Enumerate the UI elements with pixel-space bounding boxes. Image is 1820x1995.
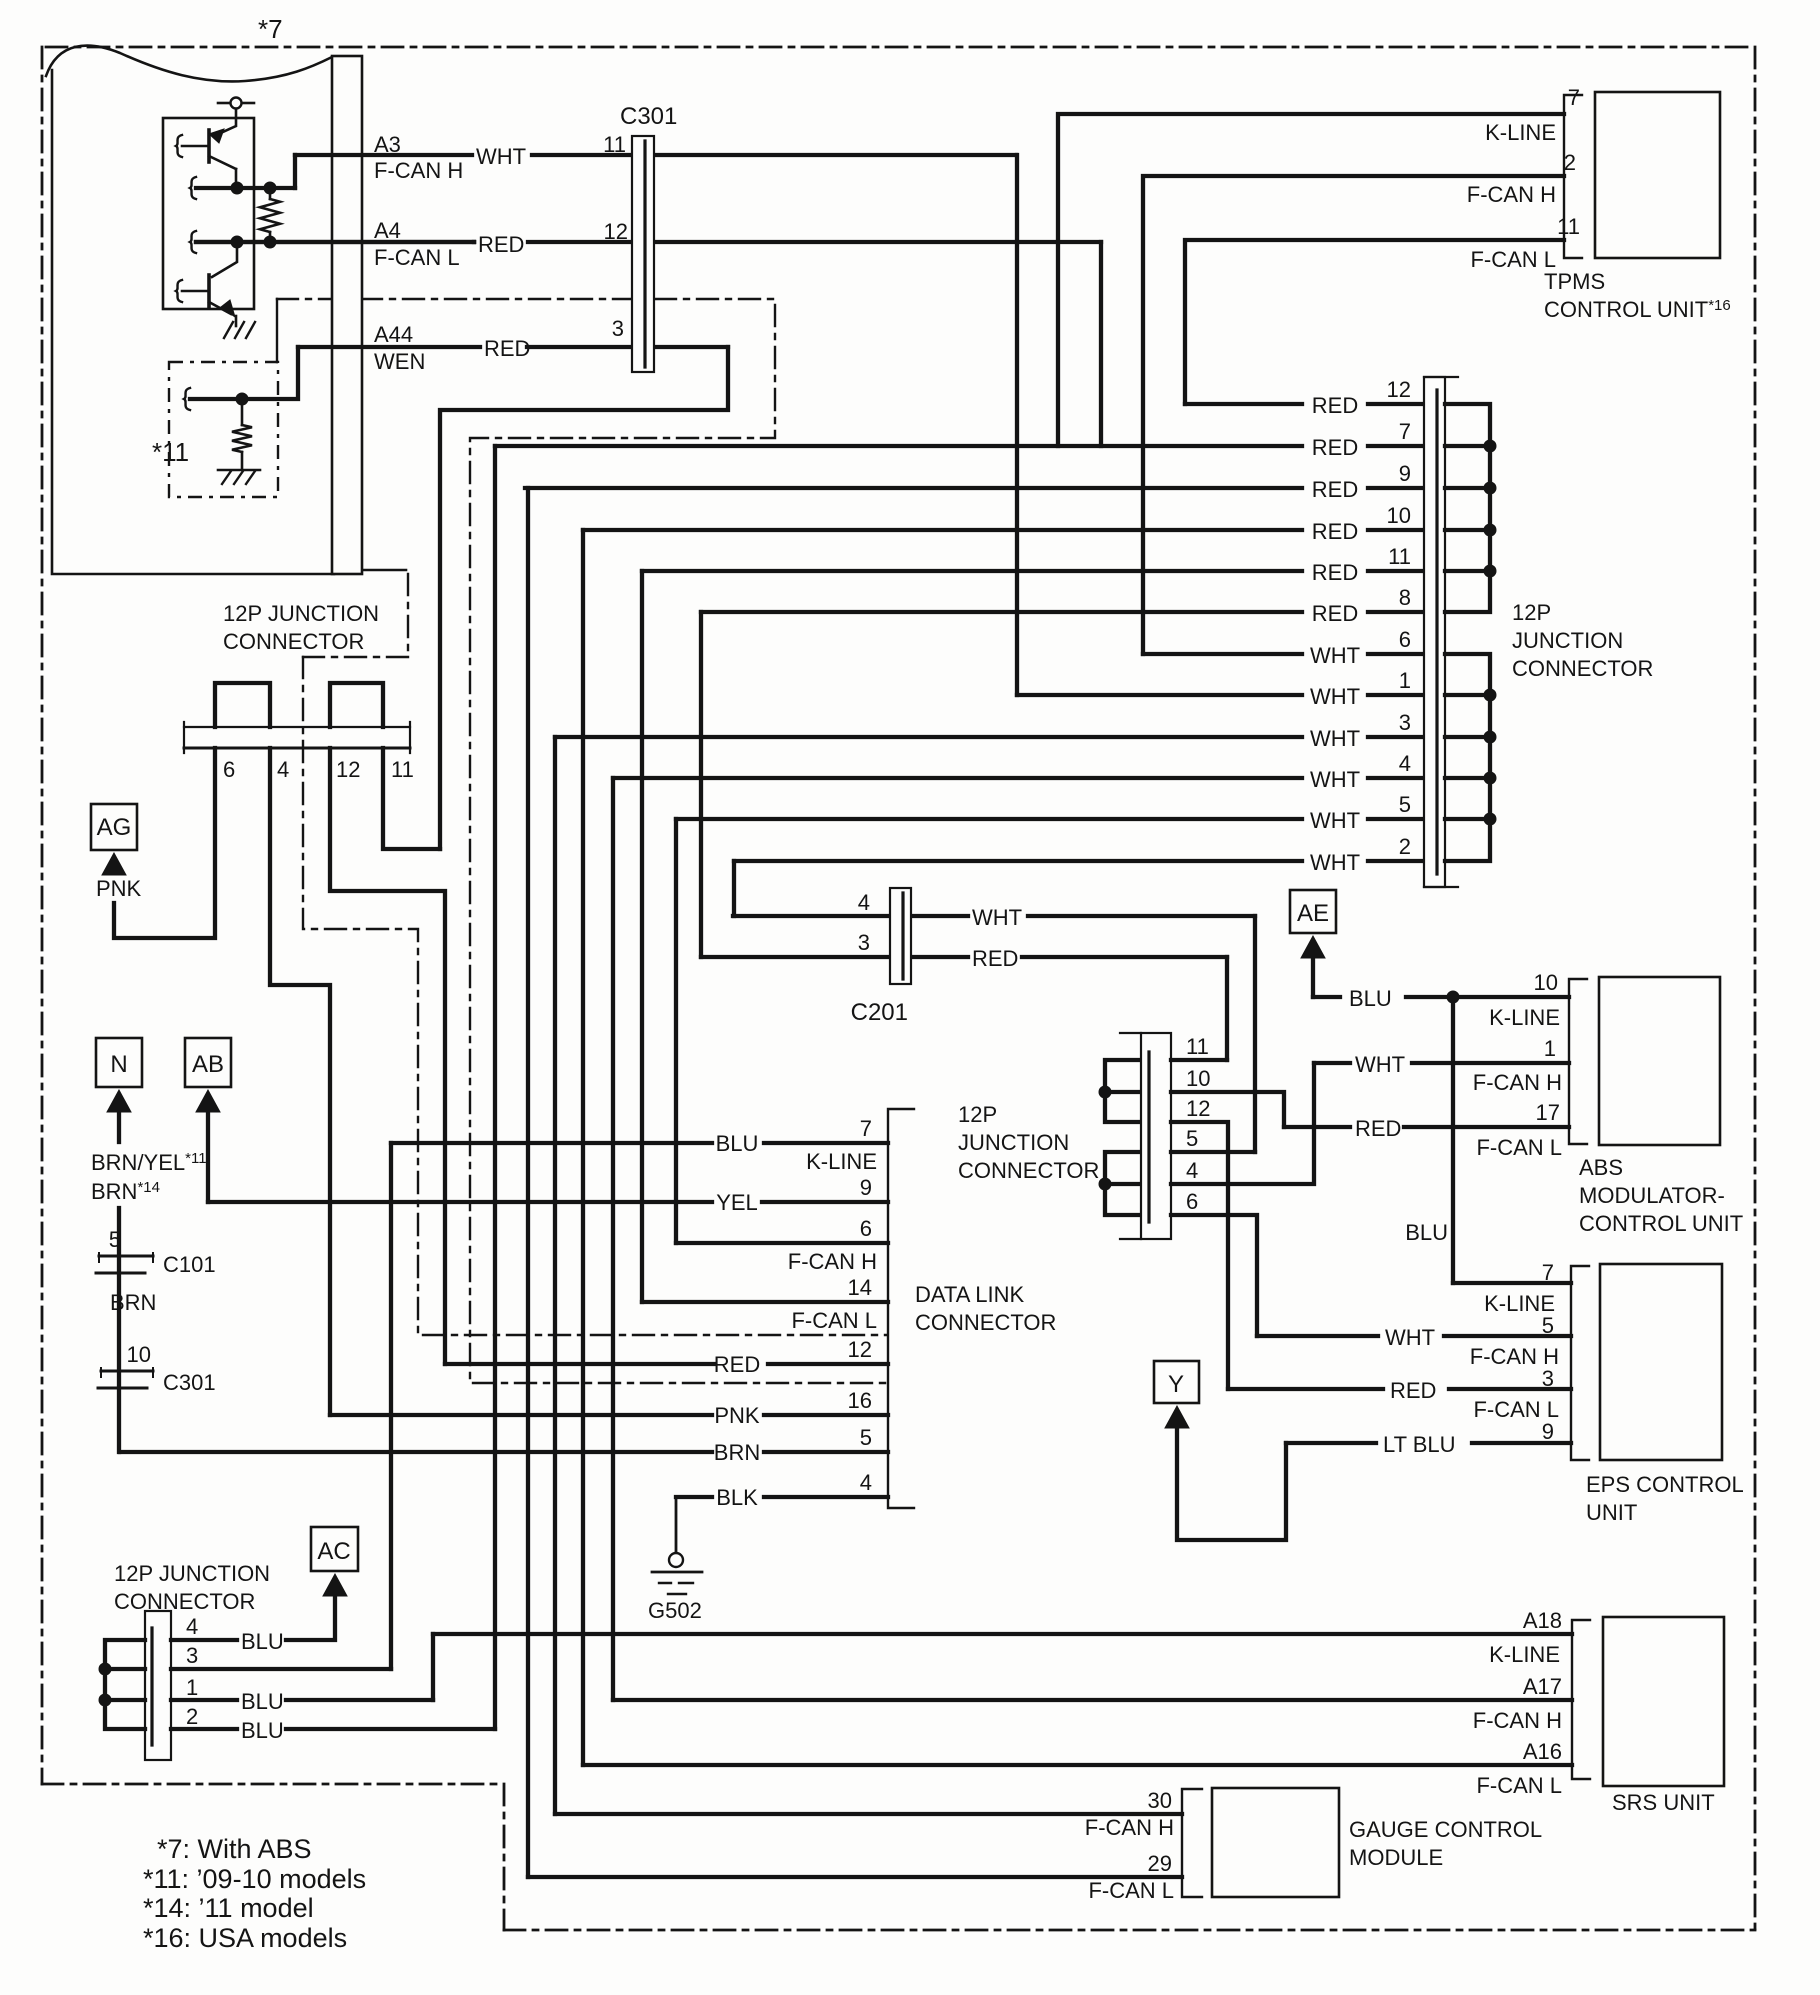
svg-text:5: 5 <box>1399 792 1411 817</box>
svg-text:SRS UNIT: SRS UNIT <box>1612 1790 1715 1815</box>
svg-text:1: 1 <box>1399 668 1411 693</box>
svg-text:UNIT: UNIT <box>1586 1500 1637 1525</box>
dash-dot box *11 <box>169 362 278 497</box>
svg-text:12P: 12P <box>1512 600 1551 625</box>
svg-text:AB: AB <box>192 1051 224 1078</box>
svg-text:RED: RED <box>1312 519 1358 544</box>
svg-text:7: 7 <box>1542 1260 1554 1285</box>
node dots on F-CAN L row <box>231 236 243 248</box>
wire WHT to right 12P junction pin 5 <box>676 817 1302 821</box>
svg-text:7: 7 <box>1568 85 1580 110</box>
svg-text:N: N <box>110 1051 127 1078</box>
jumper loop pins 12-11 <box>330 683 383 727</box>
transistor network box <box>163 118 254 309</box>
svg-text:CONTROL UNIT: CONTROL UNIT <box>1579 1211 1743 1236</box>
svg-text:11: 11 <box>1388 544 1411 569</box>
wire F-CAN L row of DLC <box>642 1300 888 1304</box>
wire A3 riser to WHT row1 <box>1015 155 1019 695</box>
wire WHT to right 12P junction pin 6 <box>1143 652 1302 656</box>
svg-text:5: 5 <box>1542 1313 1554 1338</box>
wire PNK row of DLC from upper junction pin 4 <box>330 1413 712 1417</box>
svg-text:WHT: WHT <box>1310 767 1360 792</box>
svg-text:F-CAN H: F-CAN H <box>788 1249 877 1274</box>
svg-text:BLU: BLU <box>241 1689 284 1714</box>
curl Q1 base stub <box>176 135 182 157</box>
svg-text:CONNECTOR: CONNECTOR <box>1512 656 1653 681</box>
arrow into AC box <box>323 1574 347 1596</box>
svg-text:7: 7 <box>1399 419 1411 444</box>
ECM torn-edge wavy top <box>46 46 332 82</box>
staircase wire riser RED row8 to C201 RED <box>699 612 703 957</box>
outer dash-dot border right <box>1754 47 1757 1930</box>
svg-text:WHT: WHT <box>1310 808 1360 833</box>
svg-text:K-LINE: K-LINE <box>806 1149 877 1174</box>
wire Q2 emitter to ground <box>235 316 238 326</box>
svg-text:2: 2 <box>1564 150 1576 175</box>
svg-text:4: 4 <box>1399 751 1411 776</box>
wire F-CAN L row to gauge pin 29 <box>528 1875 1182 1879</box>
AE reference box <box>1290 890 1336 933</box>
svg-text:7: 7 <box>860 1116 872 1141</box>
staircase wire riser WHT row3 to gauge F-CAN H <box>553 737 557 1814</box>
svg-text:YEL: YEL <box>716 1190 758 1215</box>
supply terminal circle <box>218 102 230 105</box>
wire Q1 emitter to F-CAN H node <box>235 169 238 188</box>
ground under transistor box <box>224 322 255 338</box>
wire RED to right 12P junction pin 7 <box>495 444 1302 448</box>
svg-text:3: 3 <box>1542 1366 1554 1391</box>
wire center row 6 to EPS F-CAN H <box>1171 1215 1257 1336</box>
svg-text:F-CAN H: F-CAN H <box>1473 1070 1562 1095</box>
lower-left junction bus <box>105 1640 145 1729</box>
wire N to C101 to C301 to BRN row <box>117 1208 121 1452</box>
arrow into Y box <box>1165 1406 1189 1428</box>
junction dot BLU K-LINE <box>1447 991 1459 1003</box>
svg-text:K-LINE: K-LINE <box>1489 1005 1560 1030</box>
svg-text:BLU: BLU <box>716 1131 759 1156</box>
svg-text:3: 3 <box>612 316 624 341</box>
connector C301 (lower) <box>101 1370 153 1373</box>
wire A4 F-CAN L RED row <box>472 240 476 244</box>
svg-text:CONNECTOR: CONNECTOR <box>114 1589 255 1614</box>
wire F-CAN L row to SRS A16 <box>583 1763 1572 1767</box>
svg-text:6: 6 <box>223 757 235 782</box>
svg-text:5: 5 <box>109 1227 121 1252</box>
svg-text:1: 1 <box>186 1675 198 1700</box>
svg-text:12P JUNCTION: 12P JUNCTION <box>223 601 379 626</box>
svg-text:14: 14 <box>848 1275 872 1300</box>
staircase wire riser RED row7 to lower-left pin2 <box>493 446 497 1729</box>
staircase wire riser RED row9 to gauge F-CAN L <box>526 488 530 1877</box>
svg-text:11: 11 <box>1557 214 1580 239</box>
svg-text:17: 17 <box>1536 1100 1560 1125</box>
svg-text:WHT: WHT <box>1310 726 1360 751</box>
svg-text:LT BLU: LT BLU <box>1383 1432 1456 1457</box>
svg-text:9: 9 <box>860 1175 872 1200</box>
wire TPMS K-LINE pin 7 <box>1058 114 1564 446</box>
ECM step at bottom right <box>364 569 406 572</box>
staircase wire riser WHT row5 to DLC F-CAN H <box>674 819 678 1243</box>
SRS unit box <box>1603 1617 1724 1786</box>
wire pin 2 BLU to row7 riser <box>171 1727 237 1731</box>
svg-text:Y: Y <box>1168 1371 1184 1398</box>
connector C201 <box>890 888 911 984</box>
EPS control unit box <box>1600 1264 1722 1460</box>
dash-dot stub from ECM step <box>407 574 409 657</box>
svg-text:2: 2 <box>1399 834 1411 859</box>
svg-text:CONNECTOR: CONNECTOR <box>915 1310 1056 1335</box>
wire pin 12 to DLC RED row <box>330 748 445 1364</box>
svg-text:PNK: PNK <box>714 1403 760 1428</box>
wire RED to ABS pin 17 F-CAN L <box>1284 1125 1350 1129</box>
svg-text:RED: RED <box>1312 393 1358 418</box>
staircase wire riser WHT row2 to C201 WHT <box>732 861 736 916</box>
staircase wire riser WHT row4 to SRS F-CAN H <box>611 778 615 1700</box>
curl F-CAN H stub <box>190 177 196 199</box>
connector bar upper-left 12P junction <box>184 722 410 753</box>
svg-text:CONNECTOR: CONNECTOR <box>958 1158 1099 1183</box>
wire RED row of DLC from upper junction pin 12 <box>445 1362 714 1366</box>
wire internal F-CAN L row <box>196 240 474 244</box>
svg-text:8: 8 <box>1399 585 1411 610</box>
connector bracket gauge <box>1182 1789 1202 1897</box>
svg-text:RED: RED <box>1390 1378 1436 1403</box>
staircase wire riser RED row11 to DLC F-CAN L <box>640 571 644 1302</box>
wire *11 internal row <box>190 347 298 399</box>
ECM connector strip bar <box>332 56 362 574</box>
connector bracket TPMS <box>1564 95 1582 258</box>
svg-text:PNK: PNK <box>96 876 142 901</box>
svg-text:11: 11 <box>391 757 414 782</box>
transistor Q1 <box>207 130 211 162</box>
svg-text:A16: A16 <box>1523 1739 1562 1764</box>
svg-text:C101: C101 <box>163 1252 216 1277</box>
arrow into AB box <box>196 1090 220 1112</box>
outer dash-dot border bottom-left step <box>42 1784 504 1930</box>
svg-text:*11: ’09-10 models: *11: ’09-10 models <box>143 1864 366 1894</box>
svg-text:RED: RED <box>478 232 524 257</box>
wire A44 WEN RED row <box>298 345 480 349</box>
wire BLU K-LINE row of DLC from lower junction pin 3 <box>391 1141 712 1145</box>
svg-text:WHT: WHT <box>476 144 526 169</box>
connector bracket EPS <box>1571 1266 1589 1460</box>
svg-text:12: 12 <box>848 1337 872 1362</box>
AG reference box <box>91 804 137 850</box>
svg-text:F-CAN H: F-CAN H <box>1473 1708 1562 1733</box>
svg-text:12P JUNCTION: 12P JUNCTION <box>114 1561 270 1586</box>
wire WHT to right 12P junction pin 3 <box>555 735 1302 739</box>
svg-text:WHT: WHT <box>1355 1052 1405 1077</box>
wire internal F-CAN H row <box>196 186 295 190</box>
svg-text:3: 3 <box>858 930 870 955</box>
svg-text:5: 5 <box>1186 1126 1198 1151</box>
wire YEL row of DLC from AB box <box>208 1200 712 1204</box>
arrow into N box <box>107 1090 131 1112</box>
wire RED to right 12P junction pin 11 <box>642 569 1302 573</box>
wire RED to right 12P junction pin 10 <box>583 528 1302 532</box>
svg-text:F-CAN L: F-CAN L <box>1476 1135 1562 1160</box>
svg-text:BLK: BLK <box>716 1485 758 1510</box>
svg-text:F-CAN L: F-CAN L <box>374 245 460 270</box>
wire from terminal to transistor Q1 <box>214 109 236 136</box>
svg-text:BRN: BRN <box>110 1290 156 1315</box>
wire F-CAN H row of DLC <box>676 1241 888 1245</box>
wire RED to right 12P junction pin 9 <box>525 486 1302 490</box>
svg-text:4: 4 <box>860 1470 872 1495</box>
wire K-LINE row to SRS A18 <box>433 1632 1572 1636</box>
AC reference box <box>311 1527 358 1571</box>
svg-text:RED: RED <box>972 946 1018 971</box>
svg-text:10: 10 <box>1186 1066 1210 1091</box>
svg-text:11: 11 <box>1186 1034 1209 1059</box>
svg-text:*7: *7 <box>258 14 283 44</box>
wire C201 WHT row <box>733 914 890 918</box>
wire A3 F-CAN H WHT row <box>295 153 472 157</box>
jumper loop pins 6-4 <box>215 683 270 727</box>
svg-text:AE: AE <box>1297 900 1329 927</box>
svg-text:F-CAN H: F-CAN H <box>1467 182 1556 207</box>
svg-text:RED: RED <box>714 1352 760 1377</box>
svg-text:16: 16 <box>848 1388 872 1413</box>
svg-text:F-CAN L: F-CAN L <box>791 1308 877 1333</box>
ground under *11 resistor <box>218 469 260 472</box>
wire WHT to right 12P junction pin 4 <box>613 776 1302 780</box>
svg-text:2: 2 <box>186 1704 198 1729</box>
svg-text:JUNCTION: JUNCTION <box>1512 628 1623 653</box>
svg-text:WHT: WHT <box>1310 643 1360 668</box>
svg-text:RED: RED <box>1355 1116 1401 1141</box>
wire TPMS F-CAN H pin 2 <box>1143 176 1564 654</box>
svg-text:6: 6 <box>860 1216 872 1241</box>
svg-text:AG: AG <box>97 814 132 841</box>
svg-text:30: 30 <box>1148 1788 1172 1813</box>
svg-text:4: 4 <box>277 757 289 782</box>
svg-text:C301: C301 <box>620 103 677 130</box>
wire LT BLU to EPS pin 9 <box>1286 1441 1376 1445</box>
Y reference box <box>1154 1361 1199 1403</box>
svg-text:WHT: WHT <box>1310 850 1360 875</box>
wire riser to A3 row <box>293 155 297 188</box>
svg-text:12: 12 <box>604 219 628 244</box>
wire C201 RED row <box>701 955 890 959</box>
wire C201 WHT drop to center junction row 5 <box>1253 916 1257 1152</box>
svg-text:A44: A44 <box>374 322 413 347</box>
wire WHT to right 12P junction pin 2 <box>734 859 1302 863</box>
svg-text:12: 12 <box>336 757 360 782</box>
svg-text:CONTROL UNIT*16: CONTROL UNIT*16 <box>1544 297 1731 322</box>
transistor Q2 <box>212 247 237 277</box>
svg-text:F-CAN L: F-CAN L <box>1476 1773 1562 1798</box>
svg-text:F-CAN H: F-CAN H <box>1085 1815 1174 1840</box>
connector bracket ABS <box>1569 979 1587 1144</box>
svg-text:A18: A18 <box>1523 1608 1562 1633</box>
center 12P junction bus left lower (5,4,6) <box>1105 1152 1141 1215</box>
wire RED to EPS pin 3 F-CAN L <box>1228 1387 1383 1391</box>
svg-text:K-LINE: K-LINE <box>1485 120 1556 145</box>
wire WHT to ABS pin 1 F-CAN H <box>1314 1061 1350 1065</box>
wire center row 5 to C201 WHT drop <box>1171 1150 1255 1154</box>
staircase wire riser RED row10 to SRS F-CAN L <box>581 530 585 1765</box>
right 12P junction bus lower (rows 6-2) <box>1445 654 1490 861</box>
svg-text:12P: 12P <box>958 1102 997 1127</box>
svg-text:MODULATOR-: MODULATOR- <box>1579 1183 1725 1208</box>
svg-text:MODULE: MODULE <box>1349 1845 1443 1870</box>
svg-text:RED: RED <box>484 336 530 361</box>
svg-text:TPMS: TPMS <box>1544 269 1605 294</box>
svg-text:*7: With ABS: *7: With ABS <box>157 1834 312 1864</box>
wire BLU drop to EPS K-LINE <box>1451 997 1455 1283</box>
wire WHT to EPS pin 5 F-CAN H <box>1257 1334 1378 1338</box>
svg-text:10: 10 <box>127 1342 151 1367</box>
svg-text:GAUGE CONTROL: GAUGE CONTROL <box>1349 1817 1542 1842</box>
wire pin 11 to A44 route <box>383 748 440 849</box>
arrow into AE box <box>1301 936 1325 958</box>
center 12P junction bus left upper (11,10,12) <box>1105 1060 1141 1122</box>
svg-text:9: 9 <box>1399 461 1411 486</box>
AB reference box <box>185 1038 231 1087</box>
svg-text:WHT: WHT <box>1310 684 1360 709</box>
curl Q2 base stub <box>176 280 182 302</box>
svg-text:4: 4 <box>1186 1158 1198 1183</box>
svg-text:BLU: BLU <box>1405 1220 1448 1245</box>
svg-text:RED: RED <box>1312 435 1358 460</box>
svg-text:G502: G502 <box>648 1598 702 1623</box>
svg-text:6: 6 <box>1186 1189 1198 1214</box>
svg-text:WHT: WHT <box>1385 1325 1435 1350</box>
curl F-CAN L stub <box>190 231 196 253</box>
wire RED to right 12P junction pin 8 <box>701 610 1302 614</box>
svg-text:4: 4 <box>186 1614 198 1639</box>
svg-text:9: 9 <box>1542 1419 1554 1444</box>
outer dash-dot border left <box>41 47 44 1784</box>
svg-text:BLU: BLU <box>241 1718 284 1743</box>
svg-text:RED: RED <box>1312 477 1358 502</box>
ABS modulator-control unit box <box>1599 977 1720 1145</box>
wire C201 RED drop to center junction row 11 <box>1225 957 1229 1060</box>
svg-text:3: 3 <box>1399 710 1411 735</box>
svg-text:*16: USA models: *16: USA models <box>143 1923 347 1953</box>
svg-text:A4: A4 <box>374 218 401 243</box>
wire pin 4 to DLC PNK row <box>270 748 330 1415</box>
wire center row 10 to ABS F-CAN L <box>1171 1092 1284 1127</box>
wire from Y to LT BLU <box>1177 1428 1286 1540</box>
right 12P junction bus upper (rows 12-8) <box>1445 404 1490 612</box>
connector bar right 12P junction <box>1424 377 1445 887</box>
svg-text:BLU: BLU <box>241 1629 284 1654</box>
wire BLK row of DLC to G502 <box>676 1495 712 1499</box>
svg-text:C201: C201 <box>851 999 908 1026</box>
svg-text:ABS: ABS <box>1579 1155 1623 1180</box>
wire BRN row of DLC from C301 <box>120 1450 712 1454</box>
svg-text:*11: *11 <box>152 437 189 467</box>
connector bar center 12P junction <box>1141 1033 1171 1239</box>
ground G502 <box>675 1497 678 1553</box>
svg-text:C301: C301 <box>163 1370 216 1395</box>
svg-text:K-LINE: K-LINE <box>1489 1642 1560 1667</box>
connector bar lower-left 12P junction <box>145 1611 171 1760</box>
N reference box <box>96 1038 142 1087</box>
svg-text:BLU: BLU <box>1349 986 1392 1011</box>
wire F-CAN H row to gauge pin 30 <box>555 1812 1182 1816</box>
wire AB to YEL row <box>206 1112 210 1202</box>
node dot *11 row <box>236 393 248 405</box>
wire A44 route down-left-down <box>440 347 728 849</box>
outer dash-dot border bottom <box>504 1929 1755 1932</box>
svg-text:EPS CONTROL: EPS CONTROL <box>1586 1472 1744 1497</box>
dash-dot line *14 upper route <box>277 299 886 1383</box>
dash-dot line lower route to DLC <box>303 656 415 658</box>
connector C101 <box>99 1255 153 1258</box>
wire pin 1 BLU to SRS K-LINE riser <box>171 1698 237 1702</box>
svg-text:F-CAN H: F-CAN H <box>374 158 463 183</box>
connector bracket DLC <box>888 1109 914 1508</box>
wire riser pin1 to SRS A18 row <box>431 1634 435 1700</box>
svg-text:11: 11 <box>603 132 626 157</box>
outer dash-dot border top (*7 region) <box>46 46 1755 49</box>
svg-text:RED: RED <box>1312 560 1358 585</box>
wire F-CAN H row to SRS A17 <box>613 1698 1572 1702</box>
wire RED to right 12P junction pin 12 <box>1185 402 1302 406</box>
svg-text:10: 10 <box>1387 503 1411 528</box>
curl *11 stub <box>184 388 190 410</box>
svg-text:BRN: BRN <box>714 1440 760 1465</box>
ECM box left and bottom edge <box>52 70 334 574</box>
wire EPS K-LINE row <box>1453 1281 1571 1285</box>
svg-text:4: 4 <box>858 890 870 915</box>
svg-text:*14: ’11 model: *14: ’11 model <box>143 1893 314 1923</box>
svg-text:CONNECTOR: CONNECTOR <box>223 629 364 654</box>
svg-text:10: 10 <box>1534 970 1558 995</box>
svg-text:12: 12 <box>1387 377 1411 402</box>
svg-text:F-CAN L: F-CAN L <box>1088 1878 1174 1903</box>
svg-text:6: 6 <box>1399 627 1411 652</box>
wire BLU K-LINE to ABS pin 10 <box>1313 995 1340 999</box>
svg-text:3: 3 <box>186 1643 198 1668</box>
svg-text:WHT: WHT <box>972 905 1022 930</box>
wire TPMS F-CAN L pin 11 <box>1185 240 1564 404</box>
wire pin 4 BLU to AC box <box>171 1638 237 1642</box>
dash-dot link from *11 to upper dash line <box>276 299 278 362</box>
svg-text:12: 12 <box>1186 1096 1210 1121</box>
connector bracket SRS <box>1572 1620 1590 1779</box>
svg-text:RED: RED <box>1312 601 1358 626</box>
wire WHT to right 12P junction pin 1 <box>1017 693 1302 697</box>
node dots on F-CAN H row <box>231 182 243 194</box>
TPMS control unit box <box>1595 92 1720 258</box>
svg-text:JUNCTION: JUNCTION <box>958 1130 1069 1155</box>
resistor R2 (*11 terminating) <box>241 404 244 425</box>
svg-text:AC: AC <box>317 1538 350 1565</box>
wire riser pin3 to BLU K-LINE row <box>389 1143 393 1669</box>
svg-text:DATA LINK: DATA LINK <box>915 1282 1025 1307</box>
wire center row 4 to ABS F-CAN H <box>1171 1063 1314 1184</box>
wire A4 drop to RED row 7 <box>1099 242 1103 446</box>
svg-text:5: 5 <box>860 1425 872 1450</box>
wire pin 6 to AG/PNK <box>114 748 215 938</box>
wire center row 11 to C201 RED drop <box>1171 1058 1227 1062</box>
svg-text:A17: A17 <box>1523 1674 1562 1699</box>
wire pin 3 to DLC K-LINE riser <box>171 1667 391 1671</box>
wire center row 12 to EPS F-CAN L <box>1171 1122 1228 1389</box>
resistor R1 between CAN lines <box>269 193 272 199</box>
svg-text:1: 1 <box>1544 1036 1556 1061</box>
svg-text:WEN: WEN <box>374 349 425 374</box>
gauge control module box <box>1212 1788 1339 1897</box>
arrow into AG box <box>102 853 126 875</box>
svg-text:29: 29 <box>1148 1851 1172 1876</box>
